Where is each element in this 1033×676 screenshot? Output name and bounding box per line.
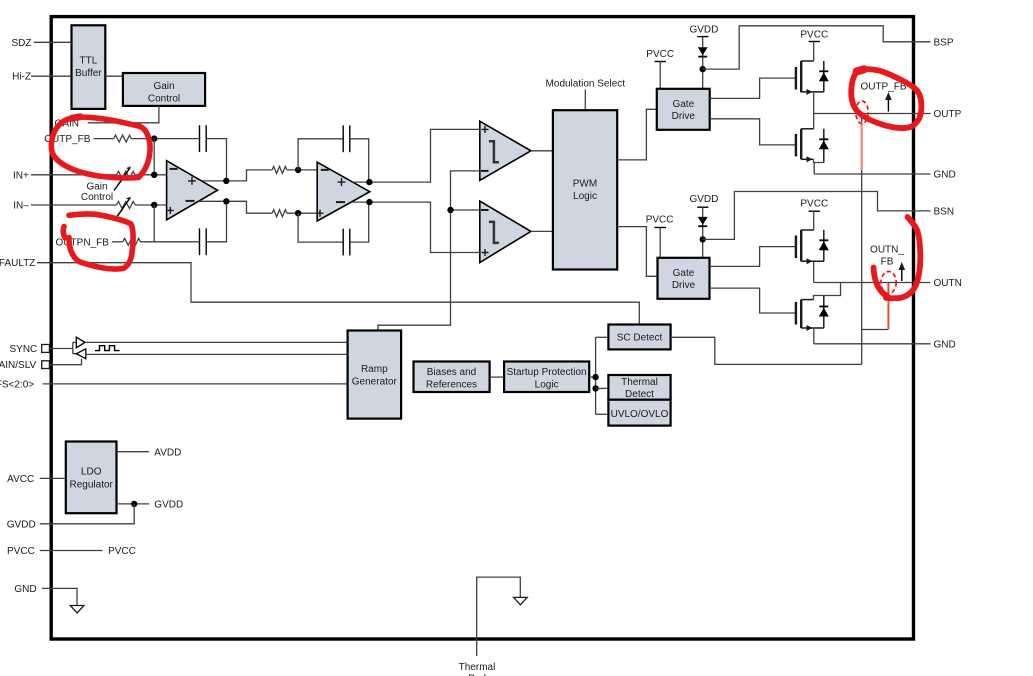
wire bus to Thermal Detect [596,387,609,389]
red dashed ellipse on OUTP node [856,101,868,124]
red marker start blob (loop 3) [857,69,865,71]
diode D4 (body diode Q4) [819,296,829,329]
junction dot amp2 out- [366,199,372,205]
UVLO/OVLO block [608,400,670,426]
wire PVCC pin stub [40,550,103,552]
svg-text:Gate: Gate [672,99,694,110]
diode D5 (GVDD bootstrap, bridge 1) [698,47,708,56]
wire PWM Logic to Gate Drive 1 [617,109,657,160]
svg-text:Logic: Logic [535,380,559,391]
svg-text:FB: FB [881,256,894,267]
wire FAULTZ to SC Detect [37,263,639,325]
capacitor C1 (stage1 top feedback) [200,125,207,152]
wire IN+ to variable resistor [31,174,117,176]
svg-text:Gain: Gain [153,81,174,92]
diode D6 (GVDD bootstrap, bridge 2) [698,217,708,226]
red dashed ellipse on OUTN node [881,272,896,294]
pink highlight line on OUTP feedback [861,122,863,170]
wire GND line (bridge 1) [814,173,930,175]
wire Gate Drive 1 to Q2 gate [710,119,795,145]
wire OUTPN_FB to resistor [112,241,123,243]
svg-text:Generator: Generator [352,377,398,388]
transistor Q3 (bridge2 high side) [796,230,824,264]
resistor R4 (stage2 bottom input) [272,210,287,217]
supply tick PVCC (bridge 1 drain) [809,41,820,43]
pointer arrow from Gain Control label to R_in- [114,209,123,221]
supply tick PVCC (bridge 2 drain) [809,210,820,212]
diode D3 (body diode Q3) [819,230,829,261]
wire Biases to Startup Protection [490,376,505,378]
red marker loop around OUTPN_FB label [69,214,133,269]
protection bus vertical wire [595,337,597,414]
svg-text:OUTN_: OUTN_ [870,244,904,255]
wire resistor to node A [131,138,199,140]
wire ramp to comparator1 minus input [378,171,480,331]
wire Q1 source to OUTP node [813,92,815,129]
svg-text:OUTP_FB: OUTP_FB [860,81,906,92]
svg-text:Ramp: Ramp [361,364,388,375]
wire OUTN sense branch [862,329,888,331]
wire AIN/SLV to sync buffer [49,359,81,365]
wire bus to SC Detect [596,336,609,338]
wire R4 to amp2 [287,212,317,214]
junction dot protection bus lower [592,385,598,391]
svg-text:Gain: Gain [86,181,107,192]
variable resistor R_in- [117,197,136,216]
resistor R_fbp on OUTP_FB [114,135,132,142]
op-amp U3 (second stage) [317,162,370,221]
wire Hi-Z to TTL buffer [31,75,73,77]
comparator U5 (bottom PWM comparator) [480,201,531,262]
red thin line OUTN feedback [887,283,889,330]
svg-text:Biases and: Biases and [427,367,476,378]
pointer arrow from Gain Control label to R_in+ [114,179,123,191]
wire comparator2 out to PWM Logic [531,230,553,232]
buffer U7 (sync input buffer) [76,349,86,359]
wire Gate Drive 2 to Q4 gate [710,288,796,313]
wire PVCC to Q1 drain [813,42,815,62]
svg-text:SC Detect: SC Detect [617,333,663,344]
wire R3 to amp2 [287,169,317,171]
supply tick PVCC (Gate Drive 1) [655,61,667,63]
capacitor C3 (stage2 top feedback) [298,125,369,182]
pin AIN/SLV square terminal [42,361,50,369]
wire GVDD through diode to Gate Drive 1 [702,37,704,89]
wire node down to IN+ node [153,139,155,175]
svg-text:GND: GND [934,339,956,350]
wire thermal pad to ground [477,577,521,656]
wire GND line (bridge 2) [814,343,931,345]
wire sync buffer to Ramp Generator (bottom) [86,353,348,355]
wire bootstrap node to BSP pin [703,26,931,69]
svg-text:Detect: Detect [625,389,654,400]
wire Startup Protection to protection bus [589,376,595,378]
junction dot ramp node [447,207,453,213]
svg-text:Logic: Logic [573,191,597,202]
supply tick GVDD (bridge 1) [697,36,708,38]
svg-text:GND: GND [14,584,36,595]
supply tick PVCC (Gate Drive 2) [655,227,667,229]
svg-text:Regulator: Regulator [70,480,114,491]
wire GND pin to ground [42,588,77,605]
arrow OUTP_FB sense [885,92,892,112]
pin SYNC square terminal [42,345,50,353]
svg-text:Startup Protection: Startup Protection [507,367,587,378]
wire Q2 source to GND [814,159,824,174]
svg-text:BSN: BSN [934,206,955,217]
wire TTL buffer to Gain Control [105,75,123,77]
wire OUTP_FB to resistor [94,138,114,140]
red marker start blob (loop 1) [72,117,80,118]
red marker stroke left hook (OUTN) [874,268,889,298]
svg-text:OUTN: OUTN [934,278,962,289]
svg-text:AVDD: AVDD [154,447,181,458]
wire LDO to GVDD node [117,503,150,505]
buffer U6 (sync output buffer) [76,337,85,348]
svg-text:Modulation Select: Modulation Select [546,79,626,90]
svg-text:GVDD: GVDD [689,194,718,205]
wire PVCC to Q3 drain [813,211,815,230]
wire R_in+ to amp1 [135,174,167,176]
wire resistor to C2 [140,241,199,243]
chip boundary border [51,17,913,639]
svg-text:GVDD: GVDD [689,25,718,36]
svg-text:GVDD: GVDD [154,500,183,511]
supply tick GVDD (bridge 2) [697,206,708,208]
wire Gate Drive 1 to Q1 gate [710,78,795,98]
red marker dash (loop 2 start) [63,227,65,238]
svg-text:Drive: Drive [672,280,696,291]
red marker loop around OUTP_FB output label [851,69,921,128]
svg-text:PVCC: PVCC [800,198,828,209]
junction dot stage2 top input [295,167,301,173]
LDO Regulator block [66,442,117,514]
junction dot amp1 out+ [223,178,229,184]
wire Gate Drive 2 to Q3 gate [710,247,796,267]
svg-text:Control: Control [81,192,113,203]
junction dot IN- node [151,202,157,208]
diode D2 (body diode Q2) [819,129,829,163]
svg-text:OUTP: OUTP [934,109,962,120]
junction dot IN+ node [151,172,157,178]
wire SDZ to TTL buffer [34,41,73,43]
red marker stroke right of OUTN (main) [886,217,920,298]
wire SYNC to buffers [49,342,76,353]
transistor Q2 (bridge1 low side) [796,129,814,163]
wire AVCC to LDO [40,477,66,479]
svg-text:Gate: Gate [673,268,695,279]
svg-text:PVCC: PVCC [646,49,674,60]
svg-text:TTL: TTL [80,56,98,67]
wire PVCC to Gate Drive 1 [659,62,661,89]
svg-text:PVCC: PVCC [108,546,136,557]
wire OUTP node to pin [814,113,931,115]
SC Detect block [608,325,670,350]
wire amp2 out- to comparator2 [353,202,480,252]
wire Q4 source to GND [813,328,815,344]
wire amp2 out+ to comparator1 [353,129,480,182]
svg-text:LDO: LDO [81,467,102,478]
svg-text:GVDD: GVDD [7,519,36,530]
wire Q3 source to OUTN node [813,261,815,282]
svg-text:IN–: IN– [13,201,29,212]
wire sync buffer to Ramp Generator (top) [85,341,348,343]
wire C2 to amp1 output [206,201,226,242]
transistor Q1 (bridge1 high side) [796,61,824,95]
Startup Protection Logic block [504,362,589,393]
ground symbol (thermal pad) [514,597,528,604]
wire bootstrap node to BSN pin [703,192,931,240]
svg-text:SDZ: SDZ [12,38,32,49]
wire Modulation Select to PWM Logic [584,90,586,111]
Gain Control block (top) [123,73,205,106]
diode D1 (body diode Q1) [819,61,829,92]
svg-text:AIN/SLV: AIN/SLV [0,360,37,371]
Gate Drive 2 block [658,258,710,299]
wire GVDD pin to GVDD node [40,504,134,524]
wire GVDD through diode to Gate Drive 2 [702,207,704,258]
op-amp U2 (input differential amplifier) [167,161,218,220]
PWM Logic block [553,110,617,269]
Thermal Detect block [608,375,670,400]
comparator U4 (top PWM comparator) [480,121,531,180]
capacitor C2 (stage1 bottom feedback) [200,228,207,255]
svg-text:PWM: PWM [573,179,597,190]
wire comparator1 out to PWM Logic [531,150,553,152]
square wave symbol on sync line [95,346,120,351]
svg-text:Thermal: Thermal [621,377,658,388]
wire OUTN node to pin [814,282,931,284]
resistor R_fbn on OUTPN_FB [123,238,141,245]
Ramp Generator block [348,331,402,419]
junction dot protection bus upper [592,374,598,380]
resistor R3 (stage2 top input) [272,166,287,173]
ground symbol (GND pin) [70,606,84,613]
wire ramp to comparator2 minus input [451,209,480,211]
wire output sense vertical (OUTP to SC detect) [861,114,863,365]
wire Gain Control to GAIN node [88,106,159,123]
capacitor C4 (stage2 bottom feedback) [298,202,369,255]
svg-text:Control: Control [148,94,180,105]
red marker loop around OUTP_FB input label [51,117,150,178]
svg-text:AVCC: AVCC [7,474,34,485]
wire C1 to amp1 output [206,139,226,181]
svg-text:Thermal: Thermal [459,662,496,673]
svg-text:IN+: IN+ [13,170,29,181]
svg-text:PVCC: PVCC [800,29,828,40]
svg-text:BSP: BSP [934,37,954,48]
svg-text:Hi-Z: Hi-Z [12,72,31,83]
svg-text:SYNC: SYNC [10,344,38,355]
svg-text:PVCC: PVCC [7,546,35,557]
wire FS<2:0> to Ramp Generator [43,383,348,385]
svg-text:Buffer: Buffer [75,68,102,79]
wire PVCC to Gate Drive 2 [659,228,661,258]
TTL Buffer U1 [72,25,106,109]
svg-text:GND: GND [934,170,956,181]
svg-text:Drive: Drive [672,111,696,122]
variable resistor R_in+ [117,166,136,185]
wire R_in- to amp1 [135,204,167,206]
junction dot stage2 bottom input [295,210,301,216]
junction dot OUTP_FB/node [151,135,157,141]
arrow OUTN_FB sense [899,262,906,281]
junction dot amp2 out+ [366,179,372,185]
wire Q4 drain jog to OUTN node [814,283,841,300]
junction dot amp1 out- [223,198,229,204]
Gate Drive 1 block [657,89,710,130]
svg-text:FAULTZ: FAULTZ [0,258,35,269]
wire amp1 out- to stage2 [198,201,272,213]
junction dot bootstrap node 2 [700,236,706,242]
wire LDO to AVDD [117,451,150,453]
wire SC Detect to output sense [671,337,862,364]
wire PWM Logic to Gate Drive 2 [617,227,657,277]
svg-text:References: References [426,380,477,391]
svg-text:UVLO/OVLO: UVLO/OVLO [611,409,669,420]
Biases and References block [414,362,490,393]
svg-text:FS<2:0>: FS<2:0> [0,379,34,390]
transistor Q4 (bridge2 low side) [796,300,824,331]
wire bus to UVLO/OVLO [596,413,609,415]
junction dot bootstrap node 1 [700,66,706,72]
wire IN- node down to OUTPN_FB [153,205,155,242]
junction dot GVDD node [131,501,137,507]
wire IN- to variable resistor [31,204,117,206]
svg-text:PVCC: PVCC [646,215,674,226]
wire amp1 out+ to stage2 [202,170,273,181]
